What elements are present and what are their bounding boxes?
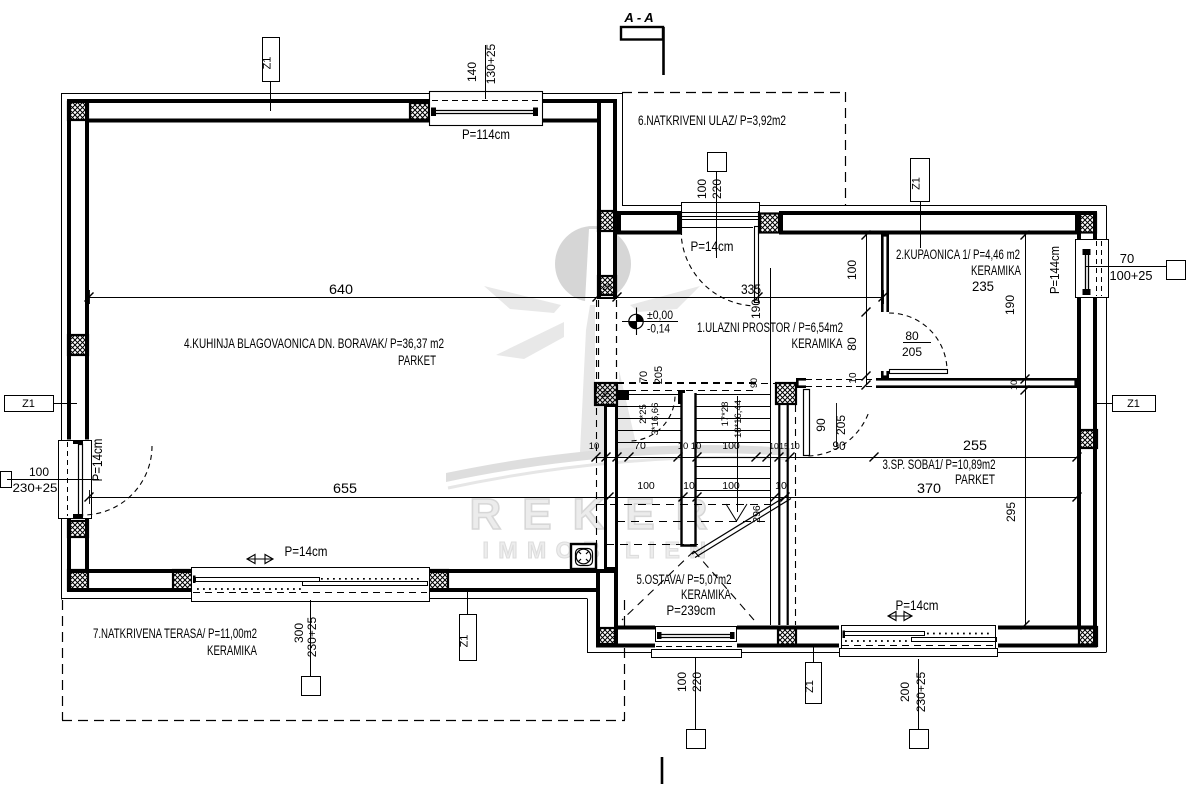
stair left wall dashed — [596, 300, 598, 570]
svg-text:140: 140 — [465, 62, 479, 82]
svg-text:220: 220 — [710, 179, 724, 199]
pillar hatch bottom wall right end — [599, 572, 616, 588]
svg-text:P=114cm: P=114cm — [462, 127, 510, 142]
svg-text:295: 295 — [1004, 502, 1018, 522]
svg-text:80: 80 — [905, 329, 919, 343]
svg-text:P=239cm: P=239cm — [667, 603, 716, 618]
door D1 swing arc — [83, 446, 152, 515]
svg-text:4.KUHINJA BLAGOVAONICA DN. BOR: 4.KUHINJA BLAGOVAONICA DN. BORAVAK/ P=36… — [184, 336, 444, 351]
svg-text:205: 205 — [653, 366, 665, 384]
door D3 bathroom leaf — [890, 370, 948, 374]
svg-text:15: 15 — [779, 441, 789, 451]
pillar hatch right wall a — [598, 211, 616, 231]
svg-text:335: 335 — [741, 281, 761, 297]
svg-text:100: 100 — [675, 672, 689, 692]
svg-text:10: 10 — [683, 480, 695, 492]
svg-text:KERAMIKA: KERAMIKA — [681, 587, 731, 602]
door D5 stair swing arc — [631, 397, 675, 441]
stair central wall — [682, 393, 696, 546]
door D3 swing arc — [889, 313, 947, 369]
opening passage erase (big room to hall) — [595, 299, 619, 385]
wall label Z1 right — [1113, 396, 1156, 412]
left building bottom wall — [69, 571, 616, 590]
passage dashed lines — [598, 300, 600, 385]
stair top wall stub a — [617, 390, 629, 400]
svg-text:6.NATKRIVENI ULAZ/ P=3,92m2: 6.NATKRIVENI ULAZ/ P=3,92m2 — [638, 113, 786, 128]
svg-text:25: 25 — [601, 389, 611, 399]
svg-text:205: 205 — [834, 415, 848, 435]
bedroom door dashed — [806, 379, 876, 381]
dimension 100/220 ostava — [695, 658, 697, 729]
svg-text:10: 10 — [589, 441, 600, 452]
right building bottom wall — [598, 628, 1095, 646]
wall label Z1 top-right — [911, 159, 930, 202]
svg-text:Z1: Z1 — [459, 635, 471, 648]
pillar hatch bottom wall ostava — [599, 628, 616, 644]
interior wall hall/bathroom — [882, 235, 887, 376]
stair top wall dashed — [617, 383, 779, 385]
pillar hatch bottom wall mid — [778, 627, 796, 646]
stair left wall — [606, 406, 617, 569]
svg-text:70: 70 — [634, 440, 646, 452]
svg-text:200: 200 — [898, 682, 912, 702]
opening bathroom door erase — [880, 312, 891, 371]
dimension 70/100+25 right — [1086, 266, 1166, 268]
svg-text:300: 300 — [292, 623, 306, 643]
door D2 swing arc — [681, 235, 750, 305]
left building top wall — [69, 101, 615, 121]
svg-text:Z1: Z1 — [911, 177, 923, 190]
svg-text:10: 10 — [678, 441, 689, 452]
opening right window erase — [1075, 240, 1099, 297]
svg-text:10: 10 — [1009, 380, 1019, 390]
level marker — [629, 314, 643, 328]
wall label Z1 left — [5, 396, 54, 412]
svg-text:70: 70 — [1120, 251, 1134, 266]
svg-text:3*16,66: 3*16,66 — [650, 403, 661, 436]
svg-text:640: 640 — [329, 281, 353, 297]
stair cut line — [692, 495, 788, 554]
pillar hatch bottom-right corner — [1079, 627, 1097, 646]
dimension 200/230+25 bedroom — [918, 659, 920, 729]
svg-text:100: 100 — [722, 440, 740, 452]
svg-text:PARKET: PARKET — [398, 353, 436, 368]
ostava dashed V — [622, 551, 694, 620]
svg-text:220: 220 — [690, 672, 704, 692]
watermark right branch — [630, 286, 700, 312]
window W3 right wall — [1076, 240, 1109, 298]
svg-text:100: 100 — [722, 480, 740, 492]
stair dashed projection lines — [596, 504, 770, 506]
terrace dashed outline — [62, 600, 64, 720]
opening bottom window erase — [191, 567, 429, 593]
pillar hatch left of top window — [410, 103, 429, 121]
svg-text:70: 70 — [638, 371, 650, 383]
pillar hatch right wall mid — [1079, 430, 1097, 448]
dimension line stair chain (y457) — [596, 457, 1077, 459]
svg-text:25: 25 — [602, 282, 612, 292]
svg-text:Z1: Z1 — [262, 57, 274, 70]
interior wall ostava/bedroom vertical — [778, 404, 780, 625]
svg-text:10: 10 — [848, 372, 859, 384]
svg-text:90: 90 — [814, 418, 828, 432]
svg-text:KERAMIKA: KERAMIKA — [207, 643, 257, 658]
pillar hatch top-right corner — [1079, 214, 1096, 233]
svg-text:130+25: 130+25 — [484, 43, 498, 84]
svg-text:PARKET: PARKET — [955, 472, 995, 487]
stair treads — [617, 394, 681, 396]
window W4 ostava — [656, 627, 737, 642]
dimension chain bathroom (x866) — [866, 235, 868, 385]
window W5 bedroom sliding — [842, 626, 996, 649]
svg-text:Z1: Z1 — [804, 680, 816, 693]
svg-text:5.OSTAVA/ P=5,07m2: 5.OSTAVA/ P=5,07m2 — [637, 572, 732, 587]
left building left wall — [69, 101, 87, 589]
svg-text:P=14cm: P=14cm — [285, 544, 328, 559]
opening ostava window erase — [655, 625, 737, 649]
opening bedroom door erase — [806, 377, 876, 390]
right building top wall main segment — [781, 213, 1077, 233]
dimension 100/220 entrance — [716, 171, 718, 258]
svg-text:296: 296 — [751, 505, 763, 523]
svg-text:10: 10 — [790, 441, 800, 451]
dimension chain right (x1025) — [1025, 235, 1027, 625]
svg-text:230+25: 230+25 — [13, 481, 58, 495]
svg-text:190: 190 — [749, 299, 763, 319]
svg-text:655: 655 — [333, 480, 357, 496]
dimension line 640/335 (y297) — [89, 297, 883, 299]
door D4 swing arc — [808, 414, 868, 456]
pillar hatch left wall lower — [68, 521, 88, 537]
svg-text:90: 90 — [832, 439, 846, 453]
svg-text:±0,00: ±0,00 — [647, 308, 673, 322]
svg-text:230+25: 230+25 — [305, 616, 319, 657]
svg-text:100: 100 — [29, 465, 49, 479]
svg-text:P=14cm: P=14cm — [691, 239, 734, 254]
wall label Z1 bottom-right — [806, 663, 822, 704]
svg-text:2.KUPAONICA 1/ P=4,46 m2: 2.KUPAONICA 1/ P=4,46 m2 — [896, 247, 1020, 262]
pillar hatch right wall b — [598, 276, 616, 295]
watermark circle (logo) — [555, 226, 631, 302]
pillar hatch top-left corner — [68, 102, 88, 120]
svg-text:17*28: 17*28 — [720, 402, 731, 427]
svg-text:100+25: 100+25 — [1110, 268, 1153, 283]
svg-text:A - A: A - A — [623, 10, 653, 25]
svg-text:255: 255 — [963, 437, 987, 453]
window W1 frame (P=114cm) — [430, 92, 543, 126]
svg-text:100: 100 — [637, 480, 655, 492]
svg-text:18*16,44: 18*16,44 — [733, 400, 744, 438]
svg-text:205: 205 — [902, 345, 922, 359]
svg-text:190: 190 — [1003, 295, 1017, 315]
stair top wall stub b — [678, 390, 685, 404]
svg-text:P=144cm: P=144cm — [1048, 246, 1062, 294]
pillar hatch left wall middle — [68, 335, 88, 355]
svg-text:P=14cm: P=14cm — [896, 598, 939, 613]
window W5 arrow — [888, 612, 912, 621]
section mark bottom — [661, 757, 664, 784]
svg-text:10: 10 — [769, 441, 779, 451]
svg-text:KERAMIKA: KERAMIKA — [971, 263, 1021, 278]
opening left door erase — [65, 440, 91, 519]
left building roof outline — [61, 93, 63, 600]
interior wall bathroom/bedroom — [866, 379, 1075, 386]
svg-text:100: 100 — [695, 179, 709, 199]
opening bedroom window erase — [839, 625, 998, 649]
svg-text:100: 100 — [845, 260, 859, 280]
junction wall piece — [598, 571, 616, 646]
svg-text:230+25: 230+25 — [914, 671, 928, 712]
dimension 300/230+25 bottom — [310, 600, 312, 676]
dimension W1 140/130+25 — [485, 45, 487, 99]
svg-text:235: 235 — [972, 278, 994, 294]
svg-text:Z1: Z1 — [22, 398, 35, 410]
pillar hatch stair top-left — [595, 383, 617, 405]
door D1 frame (left wall) — [59, 441, 92, 519]
svg-text:7.NATKRIVENA TERASA/ P=11,00m2: 7.NATKRIVENA TERASA/ P=11,00m2 — [93, 626, 257, 641]
svg-text:KERAMIKA: KERAMIKA — [792, 336, 843, 351]
stair direction arrow — [726, 504, 747, 521]
stair direction line — [737, 396, 739, 512]
right building roof outline — [622, 205, 1106, 207]
svg-text:370: 370 — [917, 480, 941, 496]
pillar hatch bottom wall a — [173, 570, 192, 590]
svg-text:-0,14: -0,14 — [647, 322, 670, 336]
dimension line 655/stairs/370 (y497) — [89, 497, 1077, 499]
window W2 arrow — [247, 555, 273, 564]
svg-text:3.SP. SOBA1/ P=10,89m2: 3.SP. SOBA1/ P=10,89m2 — [883, 457, 996, 472]
pillar hatch stairs/bedroom — [776, 383, 796, 404]
pillar hatch bottom-left corner — [68, 570, 88, 590]
svg-text:Z1: Z1 — [1127, 398, 1140, 410]
svg-text:10: 10 — [775, 480, 787, 492]
window W2 sliding (bottom wall) — [192, 568, 430, 602]
opening top window erase — [429, 97, 543, 125]
left building right wall upper — [599, 101, 615, 300]
wall label Z1 bottom-left — [460, 615, 477, 661]
hall floor-opening dashed — [617, 382, 758, 384]
dimension 100/230+25 left — [7, 479, 99, 481]
fixture boiler — [571, 544, 596, 569]
door D2 entrance opening — [682, 203, 760, 213]
right building top wall left segment — [619, 213, 679, 233]
svg-text:P=14cm: P=14cm — [90, 439, 105, 482]
pillar hatch bottom wall b — [429, 570, 448, 590]
svg-text:1.ULAZNI PROSTOR / P=6,54m2: 1.ULAZNI PROSTOR / P=6,54m2 — [697, 320, 843, 335]
stairs edge line — [770, 268, 772, 625]
door D4 bedroom leaf — [804, 390, 810, 456]
watermark tree trunk — [580, 305, 638, 452]
watermark left branch lower — [496, 322, 564, 359]
svg-text:80: 80 — [845, 337, 859, 351]
pillar hatch entry door right — [760, 214, 779, 233]
svg-text:10: 10 — [691, 441, 702, 452]
wall label Z1 top-left — [263, 38, 280, 82]
watermark left branch upper — [484, 286, 561, 313]
right building right wall — [1079, 213, 1095, 645]
porch dashed outline (natkriveni ulaz) — [622, 92, 845, 94]
interior wall bedroom/stairs horizontal — [797, 379, 863, 386]
watermark wave band — [446, 445, 790, 482]
svg-text:2*25: 2*25 — [638, 404, 649, 424]
